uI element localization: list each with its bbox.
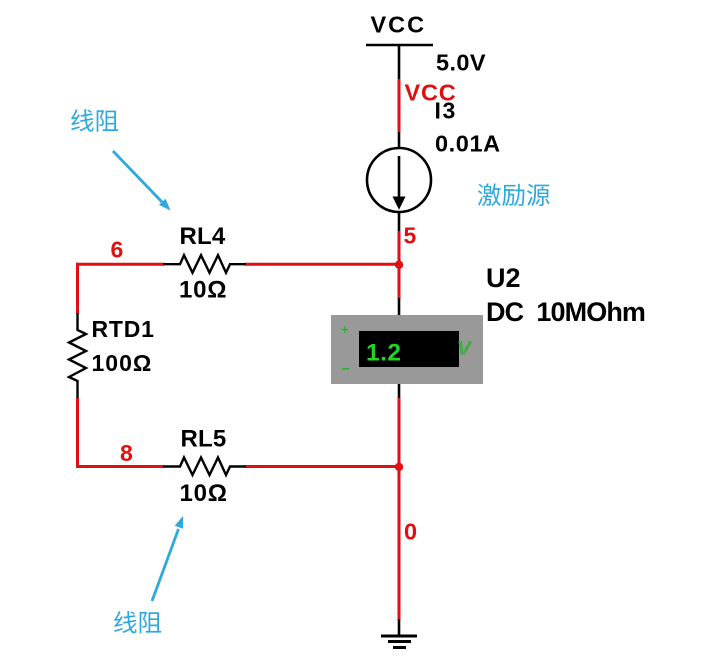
svg-text:0.01A: 0.01A [435,131,501,157]
svg-text:RL4: RL4 [180,223,226,250]
svg-text:10Ω: 10Ω [179,277,227,304]
junction node 5 [395,261,403,269]
wire top horizontal left segment (red) [76,263,164,266]
wire multimeter top lead [398,298,401,316]
svg-text:5.0V: 5.0V [436,50,486,76]
wire bottom horizontal right segment (red) [245,465,399,468]
annotation arrow (bottom, pointing to RL5) [152,516,183,601]
svg-text:RTD1: RTD1 [92,316,155,342]
annotation arrow (top, pointing to RL4) [113,151,171,211]
svg-text:−: − [342,361,350,377]
annotation 线阻 (bottom) [114,611,161,634]
wire bottom horizontal left segment (red) [76,465,164,468]
wire net VCC (red) [398,79,401,132]
power symbol VCC [366,45,433,79]
svg-text:v: v [457,331,473,361]
resistor RL5 [163,458,246,476]
resistor RL4 [163,255,246,273]
svg-text:100Ω: 100Ω [92,350,153,376]
svg-text:10Ω: 10Ω [180,480,228,507]
wire node 0 to ground (red) [398,467,401,621]
svg-text:I3: I3 [435,98,457,124]
wire to current source top [398,132,401,149]
svg-text:5: 5 [404,223,417,249]
annotation 线阻 (top) [71,109,118,132]
svg-text:0: 0 [404,519,417,545]
annotation 激励源 [478,183,550,206]
svg-text:8: 8 [120,440,133,466]
current source I3 [367,148,431,212]
svg-text:6: 6 [111,237,124,263]
svg-text:DC 10MOhm: DC 10MOhm [486,297,645,327]
multimeter U2 [331,315,483,384]
svg-text:1.2: 1.2 [366,340,402,367]
ground [381,619,417,648]
wire top horizontal right segment (red) [245,263,399,266]
wire multimeter bottom lead [398,384,401,399]
svg-text:+: + [341,322,349,337]
svg-text:VCC: VCC [371,12,427,38]
wire node 5 to multimeter (red) [398,264,401,299]
wire left vertical lower (red) [76,398,79,468]
wire below current source [398,212,401,231]
wire left vertical upper (red) [76,263,79,314]
resistor RTD1 [69,313,86,399]
svg-text:U2: U2 [486,263,521,293]
wire multimeter to node 0 (red) [398,398,401,467]
svg-text:RL5: RL5 [181,426,227,453]
junction node 0/8 [395,463,403,471]
wire node 5 (red) [398,231,401,266]
